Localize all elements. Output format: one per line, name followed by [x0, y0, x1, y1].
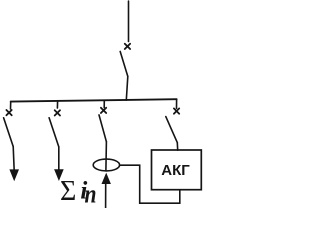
current transformer CT (summation toroid)	[93, 159, 119, 171]
disconnect switch branch1 (open blade)	[4, 118, 14, 147]
arrow current direction (up) on branch3	[102, 173, 111, 184]
wire branch4 into AKG box	[176, 143, 178, 151]
wire branch1 lower	[13, 147, 14, 172]
arrow branch2 (outgoing feeder)	[54, 169, 64, 181]
arrow branch1 (outgoing feeder)	[9, 169, 19, 181]
wire branch4 drop from busbar	[176, 99, 178, 108]
wire branch3 below arrow	[105, 183, 107, 208]
busbar	[11, 99, 177, 101]
wire CT output to AKG	[120, 165, 180, 203]
wire branch2 drop from busbar	[56, 101, 58, 108]
wire incoming feeder (top vertical)	[128, 1, 130, 42]
wire branch3 through CT	[105, 142, 108, 170]
breaker x branch1	[6, 110, 11, 115]
wire branch1 drop from busbar	[10, 102, 12, 109]
disconnect switch branch2 (open blade)	[49, 118, 59, 147]
breaker x incoming	[125, 44, 130, 49]
wire incoming to busbar	[126, 76, 128, 100]
disconnect switch branch3 (open blade)	[99, 115, 106, 142]
disconnect switch branch4 (open blade)	[166, 117, 178, 143]
breaker x branch4	[174, 108, 179, 113]
breaker x branch2	[55, 110, 60, 115]
wire branch2 lower	[58, 147, 60, 171]
svg-text:Σ: Σ	[60, 176, 76, 207]
label sum in	[60, 176, 97, 208]
wire branch3 drop from busbar	[103, 100, 105, 107]
svg-text:n: n	[85, 179, 97, 208]
svg-text:АКГ: АКГ	[161, 162, 190, 179]
block AKG (automatic compensation device)	[152, 150, 202, 190]
disconnect switch incoming (open blade)	[120, 52, 128, 77]
breaker x branch3	[101, 108, 106, 113]
label AKG	[161, 162, 190, 179]
